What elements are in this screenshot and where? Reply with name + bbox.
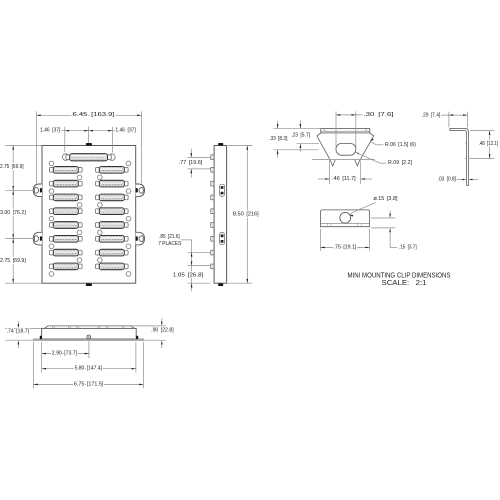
svg-text:2.90 [73.7]: 2.90 [73.7]	[52, 351, 78, 357]
connector J16 (left col row 8)	[50, 263, 83, 270]
dim 8.50 ext line bottom	[228, 282, 253, 284]
clip front view base line	[312, 158, 375, 160]
dim .77 ext line bottom	[188, 168, 211, 170]
side view mounting clip lower	[220, 233, 225, 245]
dim 6.45 ext line left	[35, 111, 37, 183]
hex standoff pair inner level 8	[77, 258, 102, 262]
hex standoff pair outer level 3	[49, 189, 131, 193]
dim .29 ext lines	[449, 112, 468, 128]
bottom view clip right	[136, 336, 138, 339]
label dia .15 [3.8]	[374, 196, 398, 202]
connector J14 (left col row 7)	[50, 249, 83, 256]
side view body outline	[214, 146, 227, 284]
dim .29 [7.4]	[422, 112, 468, 118]
svg-text:7 PLACES: 7 PLACES	[158, 241, 181, 247]
side view connector stub 8	[211, 250, 214, 255]
left chain dim ext line top	[5, 145, 42, 147]
svg-text:6.45 [163.9]: 6.45 [163.9]	[73, 112, 116, 118]
bottom view clip left	[40, 336, 42, 339]
dim 5.80 [147.4]	[42, 366, 136, 372]
clip side view detent bumps	[465, 142, 468, 159]
dim .46 [11.7]	[318, 176, 372, 182]
label R.09 [2.2]	[388, 160, 412, 166]
dim .48 [12.1]	[479, 131, 499, 159]
clip front view slot	[336, 143, 356, 155]
connector J13 (right col row 6)	[96, 236, 129, 243]
hex standoff pair inner level 4	[77, 203, 102, 207]
dim 1.46 ext line center	[88, 127, 90, 143]
dim text 2.75 [69.9] upper	[0, 164, 24, 170]
svg-text:.33 [8.3]: .33 [8.3]	[269, 136, 288, 142]
svg-text:6.75 [171.5]: 6.75 [171.5]	[74, 381, 104, 387]
dim .48 ext lines	[470, 131, 495, 159]
hex standoff pair outer level 1	[49, 161, 131, 165]
dim .33 [8.3]	[269, 121, 288, 158]
side view connector stub 6	[211, 223, 214, 228]
dim 8.50 [216]	[233, 146, 259, 284]
connector J3 (right col row 1)	[96, 167, 129, 174]
dim .75 ext lines	[320, 229, 369, 251]
dim text 3.00 [76.2]	[0, 210, 26, 216]
svg-text:.74 [18.7]: .74 [18.7]	[7, 328, 30, 334]
svg-text:.90 [22.8]: .90 [22.8]	[151, 328, 174, 334]
side view connector stub 9	[211, 264, 214, 269]
connector J8 (left col row 4)	[50, 208, 83, 215]
svg-text:3.00 [76.2]: 3.00 [76.2]	[0, 210, 26, 216]
dim 6.75 [171.5]	[34, 381, 144, 387]
dim .03 [0.8]	[438, 177, 478, 183]
connector J4 (left col row 2)	[50, 180, 83, 187]
dim .75 [19.1]	[320, 244, 369, 250]
dim .15 [3.7]	[389, 211, 417, 251]
dim 2.90 [73.7]	[42, 351, 89, 357]
svg-text:SCALE: 2:1: SCALE: 2:1	[382, 278, 427, 287]
dim 1.46 [37] left	[40, 128, 89, 134]
mounting clip tab left upper	[33, 184, 42, 197]
dim .23 [5.7]	[291, 120, 310, 151]
svg-text:1.46 [37]: 1.46 [37]	[40, 128, 61, 134]
mounting clip tab right upper	[136, 184, 145, 197]
leader R.06	[370, 138, 384, 144]
dim 1.46 ext line B	[111, 127, 113, 153]
connector J12 (left col row 6)	[50, 236, 83, 243]
connector J9 (right col row 4)	[96, 208, 129, 215]
label R.06 [1.5] (6)	[385, 142, 416, 148]
dim 8.50 ext line top	[228, 145, 253, 147]
bottom view lip	[44, 326, 134, 329]
svg-text:.29 [7.4]: .29 [7.4]	[422, 112, 441, 118]
dim .77 ext line top	[188, 156, 211, 158]
title line 2	[382, 278, 427, 287]
title line 1	[348, 270, 451, 279]
connector J15 (right col row 7)	[96, 249, 129, 256]
svg-text:.75 [19.1]: .75 [19.1]	[334, 244, 357, 250]
dim 1.46 ext line A	[64, 127, 66, 153]
left chain arrows	[12, 146, 14, 284]
side view connector stub 4	[211, 195, 214, 200]
mounting clip tab right lower	[136, 232, 145, 245]
dim 6.75 ext lines	[34, 342, 144, 388]
svg-text:R.06 [1.5] (6): R.06 [1.5] (6)	[385, 142, 416, 148]
clip bottom view hole	[340, 212, 351, 223]
dim 1.05 [26.8]	[173, 266, 204, 292]
side view ground tab top	[218, 143, 223, 146]
dim 2.90 ext line center	[88, 341, 90, 358]
bottom view connector end ticks	[53, 326, 125, 328]
svg-text:⌀.15 [3.8]: ⌀.15 [3.8]	[374, 196, 398, 202]
dim .30 ext lines	[336, 111, 356, 148]
front view ground tab top	[86, 143, 92, 146]
svg-text:1.46 [37]: 1.46 [37]	[115, 128, 136, 134]
clip front view top band	[321, 129, 370, 133]
left chain dim line	[12, 146, 14, 284]
dim 1.05 ext line bottom	[188, 282, 211, 284]
dim .46 ext lines	[330, 161, 361, 185]
bottom view body	[42, 328, 137, 339]
dim .74 ext lines	[5, 328, 41, 340]
hex standoff pair inner level 6	[77, 230, 102, 234]
connector J7 (right col row 3)	[96, 194, 129, 201]
clip front view right arm	[360, 133, 373, 159]
hex standoff pair outer level 7	[49, 244, 131, 248]
dim .30 [7.6]	[336, 112, 394, 118]
dim text 2.75 [69.9] lower	[0, 258, 26, 264]
front view ground tab bottom	[86, 283, 92, 286]
connector J6 (left col row 3)	[50, 194, 83, 201]
hex standoff pair inner level 2	[77, 175, 102, 179]
dim 5.80 ext line right	[135, 342, 137, 372]
clip front view right foot	[355, 160, 360, 166]
connector J1 jack screw holes	[62, 154, 115, 161]
side view connector stub 7	[211, 237, 214, 242]
side view ground tab bottom	[218, 283, 223, 286]
dim 2.90 ext line left	[41, 342, 43, 372]
dim .77 [19.6]	[179, 149, 203, 178]
svg-text:R.09 [2.2]: R.09 [2.2]	[388, 160, 412, 166]
dim 6.45 [163.9]	[36, 112, 141, 118]
dim .85 ext line bottom	[188, 265, 211, 267]
connector J10 (left col row 5)	[50, 222, 83, 229]
svg-text:.77 [19.6]: .77 [19.6]	[179, 160, 203, 166]
svg-text:.03 [0.8]: .03 [0.8]	[438, 177, 457, 183]
leader dia .15	[349, 203, 375, 217]
connector J5 (right col row 2)	[96, 180, 129, 187]
clip front view left foot	[330, 160, 335, 166]
svg-text:1.05 [26.8]: 1.05 [26.8]	[173, 272, 204, 278]
svg-text:2.75 [69.9]: 2.75 [69.9]	[0, 164, 24, 170]
clip front view left arm	[317, 133, 330, 159]
dim .15 ext lines	[371, 218, 395, 228]
leader R.09	[355, 152, 386, 163]
connector J2 (left col row 1)	[50, 167, 83, 174]
dim .90 [22.8]	[151, 318, 174, 348]
dim .23 upper ext line	[274, 127, 321, 129]
hex standoff pair outer level 5	[49, 216, 131, 220]
clip side view L profile	[450, 128, 469, 185]
connector J17 (right col row 8)	[96, 263, 129, 270]
dim 1.46 [37] right	[89, 128, 137, 134]
dim .90 ext lines	[132, 326, 166, 340]
side view connector stub 2	[211, 168, 214, 173]
dim .85 ext line top	[188, 251, 211, 253]
svg-text:.30 [7.6]: .30 [7.6]	[364, 112, 395, 118]
side view mounting clip upper	[220, 184, 225, 196]
left chain dim ext line bottom	[5, 282, 42, 284]
mounting clip tab left lower	[33, 232, 42, 245]
connector J1 (top DB25)	[66, 154, 111, 161]
svg-text:8.50 [216]: 8.50 [216]	[233, 212, 259, 218]
svg-text:.15 [3.7]: .15 [3.7]	[399, 245, 417, 251]
bottom view center hole	[87, 335, 91, 339]
hex standoff pair outer level 9	[49, 272, 131, 276]
side view connector stub 1	[211, 155, 214, 160]
svg-text:.48 [12.1]: .48 [12.1]	[479, 141, 499, 147]
connector J11 (right col row 5)	[96, 222, 129, 229]
dim .33 lower ext line	[274, 149, 319, 151]
front view panel outline	[42, 146, 136, 284]
bottom view flange	[34, 339, 144, 340]
svg-text:2.75 [69.9]: 2.75 [69.9]	[0, 258, 26, 264]
clip bottom view body	[320, 210, 369, 227]
left chain dim ext line clip1	[5, 189, 33, 191]
dim .74 [18.7]	[7, 321, 30, 348]
svg-text:.23 [5.7]: .23 [5.7]	[291, 133, 310, 139]
svg-text:.85 [21.6]: .85 [21.6]	[159, 234, 180, 240]
svg-text:.46 [11.7]: .46 [11.7]	[332, 176, 356, 182]
dim .85 leader	[181, 240, 192, 252]
left chain dim ext line clip2	[5, 238, 33, 240]
dim 6.45 ext line right	[140, 111, 142, 183]
side view connector stub 3	[211, 181, 214, 186]
dim .85 [21.6]	[158, 234, 192, 266]
dim .23 lower ext line	[297, 143, 319, 145]
side view connector stub 5	[211, 209, 214, 214]
svg-text:5.80 [147.4]: 5.80 [147.4]	[75, 366, 103, 372]
